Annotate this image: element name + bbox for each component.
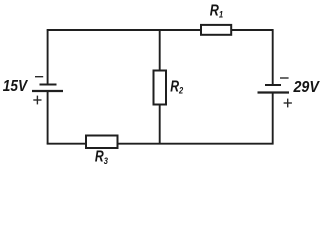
- svg-text:15V: 15V: [3, 78, 28, 95]
- svg-text:29V: 29V: [293, 79, 320, 96]
